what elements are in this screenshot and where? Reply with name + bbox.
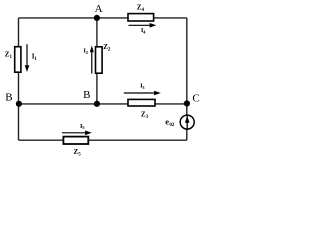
node B left (dot) [16, 101, 22, 107]
source e02 (circle with up arrow) [180, 115, 194, 129]
node B middle (dot) [94, 101, 100, 107]
impedance Z1 (left branch box) [15, 47, 21, 72]
wire middle horizontal B to C [19, 103, 187, 105]
wire left vertical [18, 18, 20, 140]
wire middle vertical A to B [96, 18, 98, 104]
current arrow I3 (right) [124, 91, 161, 96]
current arrow I2 (up) [90, 46, 94, 74]
svg-text:C: C [192, 93, 199, 105]
svg-text:02: 02 [169, 123, 174, 128]
current arrow I4 (right) [129, 23, 157, 28]
wire bottom horizontal [19, 139, 187, 141]
impedance Z3 (middle right branch box) [128, 99, 155, 106]
svg-text:B: B [5, 92, 12, 104]
impedance Z2 (middle branch box) [96, 47, 103, 73]
impedance Z4 (top branch box) [128, 14, 154, 21]
wire right vertical [186, 18, 188, 140]
wire top horizontal [19, 17, 187, 19]
svg-text:A: A [95, 3, 103, 15]
current arrow I5 (right) [62, 131, 92, 136]
svg-text:B: B [83, 89, 90, 101]
node A (dot) [94, 15, 100, 21]
node C (dot) [184, 100, 190, 106]
current arrow I1 (down) [25, 44, 30, 72]
impedance Z5 (bottom branch box) [63, 137, 88, 144]
